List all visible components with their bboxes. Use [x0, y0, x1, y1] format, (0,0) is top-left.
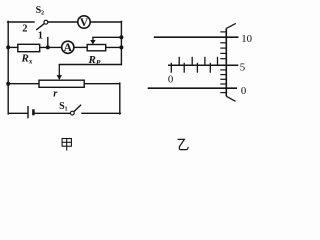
svg-text:r: r — [53, 89, 58, 100]
potentiometer r slider arrow — [57, 65, 62, 80]
svg-text:1: 1 — [38, 30, 43, 41]
micrometer sleeve bottom edge line — [148, 87, 237, 89]
micrometer thimble graduation line 10 — [226, 36, 238, 38]
rheostat RP slider arrow — [90, 37, 95, 44]
ammeter A1 — [62, 41, 74, 54]
micrometer thimble graduation line 5 — [226, 64, 238, 66]
micrometer main scale datum line — [168, 64, 238, 66]
svg-text:5: 5 — [240, 61, 245, 73]
svg-text:RP: RP — [88, 54, 101, 67]
wire: lower left to r — [8, 83, 39, 85]
wire: right rail lower — [119, 83, 121, 114]
node: right rail / slider wire junction — [119, 35, 123, 39]
switch S1 lever — [74, 105, 81, 112]
wire: right rail upper — [120, 21, 122, 64]
micrometer thimble graduation line 0 — [226, 87, 237, 89]
micrometer sleeve top edge line — [154, 36, 239, 38]
svg-text:A: A — [64, 42, 73, 54]
wire: top wire to S2 contact 2 — [8, 21, 34, 23]
wire: voltmeter to top-right corner — [90, 21, 121, 23]
node: left rail / lower wire junction — [6, 82, 10, 86]
label yi (figure 2 caption) — [178, 139, 189, 149]
battery cell — [28, 106, 33, 118]
switch S1 pivot circle — [70, 111, 74, 115]
wire: bottom left to battery — [8, 112, 27, 114]
svg-text:S1: S1 — [59, 101, 68, 113]
micrometer thimble minor ticks — [220, 32, 226, 93]
svg-text:0: 0 — [241, 85, 246, 97]
potentiometer r body — [39, 80, 84, 87]
svg-text:V: V — [80, 17, 89, 29]
switch S2 lever — [36, 24, 44, 30]
node: right rail / middle wire junction — [119, 45, 123, 49]
micrometer main scale mm ticks — [171, 63, 210, 73]
switch S2 pivot circle — [44, 20, 48, 24]
svg-text:10: 10 — [241, 33, 252, 45]
svg-text:0: 0 — [168, 74, 173, 86]
wire: RP slider to right rail — [93, 36, 122, 38]
svg-text:S2: S2 — [36, 5, 45, 17]
wire: r to bottom-right corner — [84, 83, 120, 85]
resistor Rx — [18, 44, 40, 51]
micrometer thimble edge — [225, 28, 227, 96]
wire: middle left to Rx — [8, 46, 18, 48]
wire: S1 to bottom-right corner — [82, 112, 120, 114]
voltmeter V1 — [78, 16, 90, 29]
wire: S2 contact 1 stub — [47, 38, 49, 48]
wire: ammeter to RP — [74, 46, 87, 48]
rheostat RP body — [87, 45, 106, 51]
wire: Rx to ammeter — [40, 46, 62, 48]
wire: r slider horizontal — [59, 64, 121, 66]
wire: RP to right rail — [106, 46, 122, 48]
micrometer main scale half-mm ticks — [179, 57, 217, 65]
label jia (figure 1 caption) — [62, 139, 71, 151]
wire: S2 to voltmeter — [48, 21, 78, 23]
svg-text:Rx: Rx — [21, 52, 33, 65]
node: contact 1 junction — [46, 45, 50, 49]
wire: battery to S1 — [34, 112, 70, 114]
wire: left rail — [7, 21, 9, 114]
micrometer thimble bottom chamfer — [226, 96, 235, 101]
node: left rail / middle wire junction — [6, 45, 10, 49]
micrometer thimble top chamfer — [226, 23, 236, 28]
svg-text:2: 2 — [22, 24, 27, 35]
